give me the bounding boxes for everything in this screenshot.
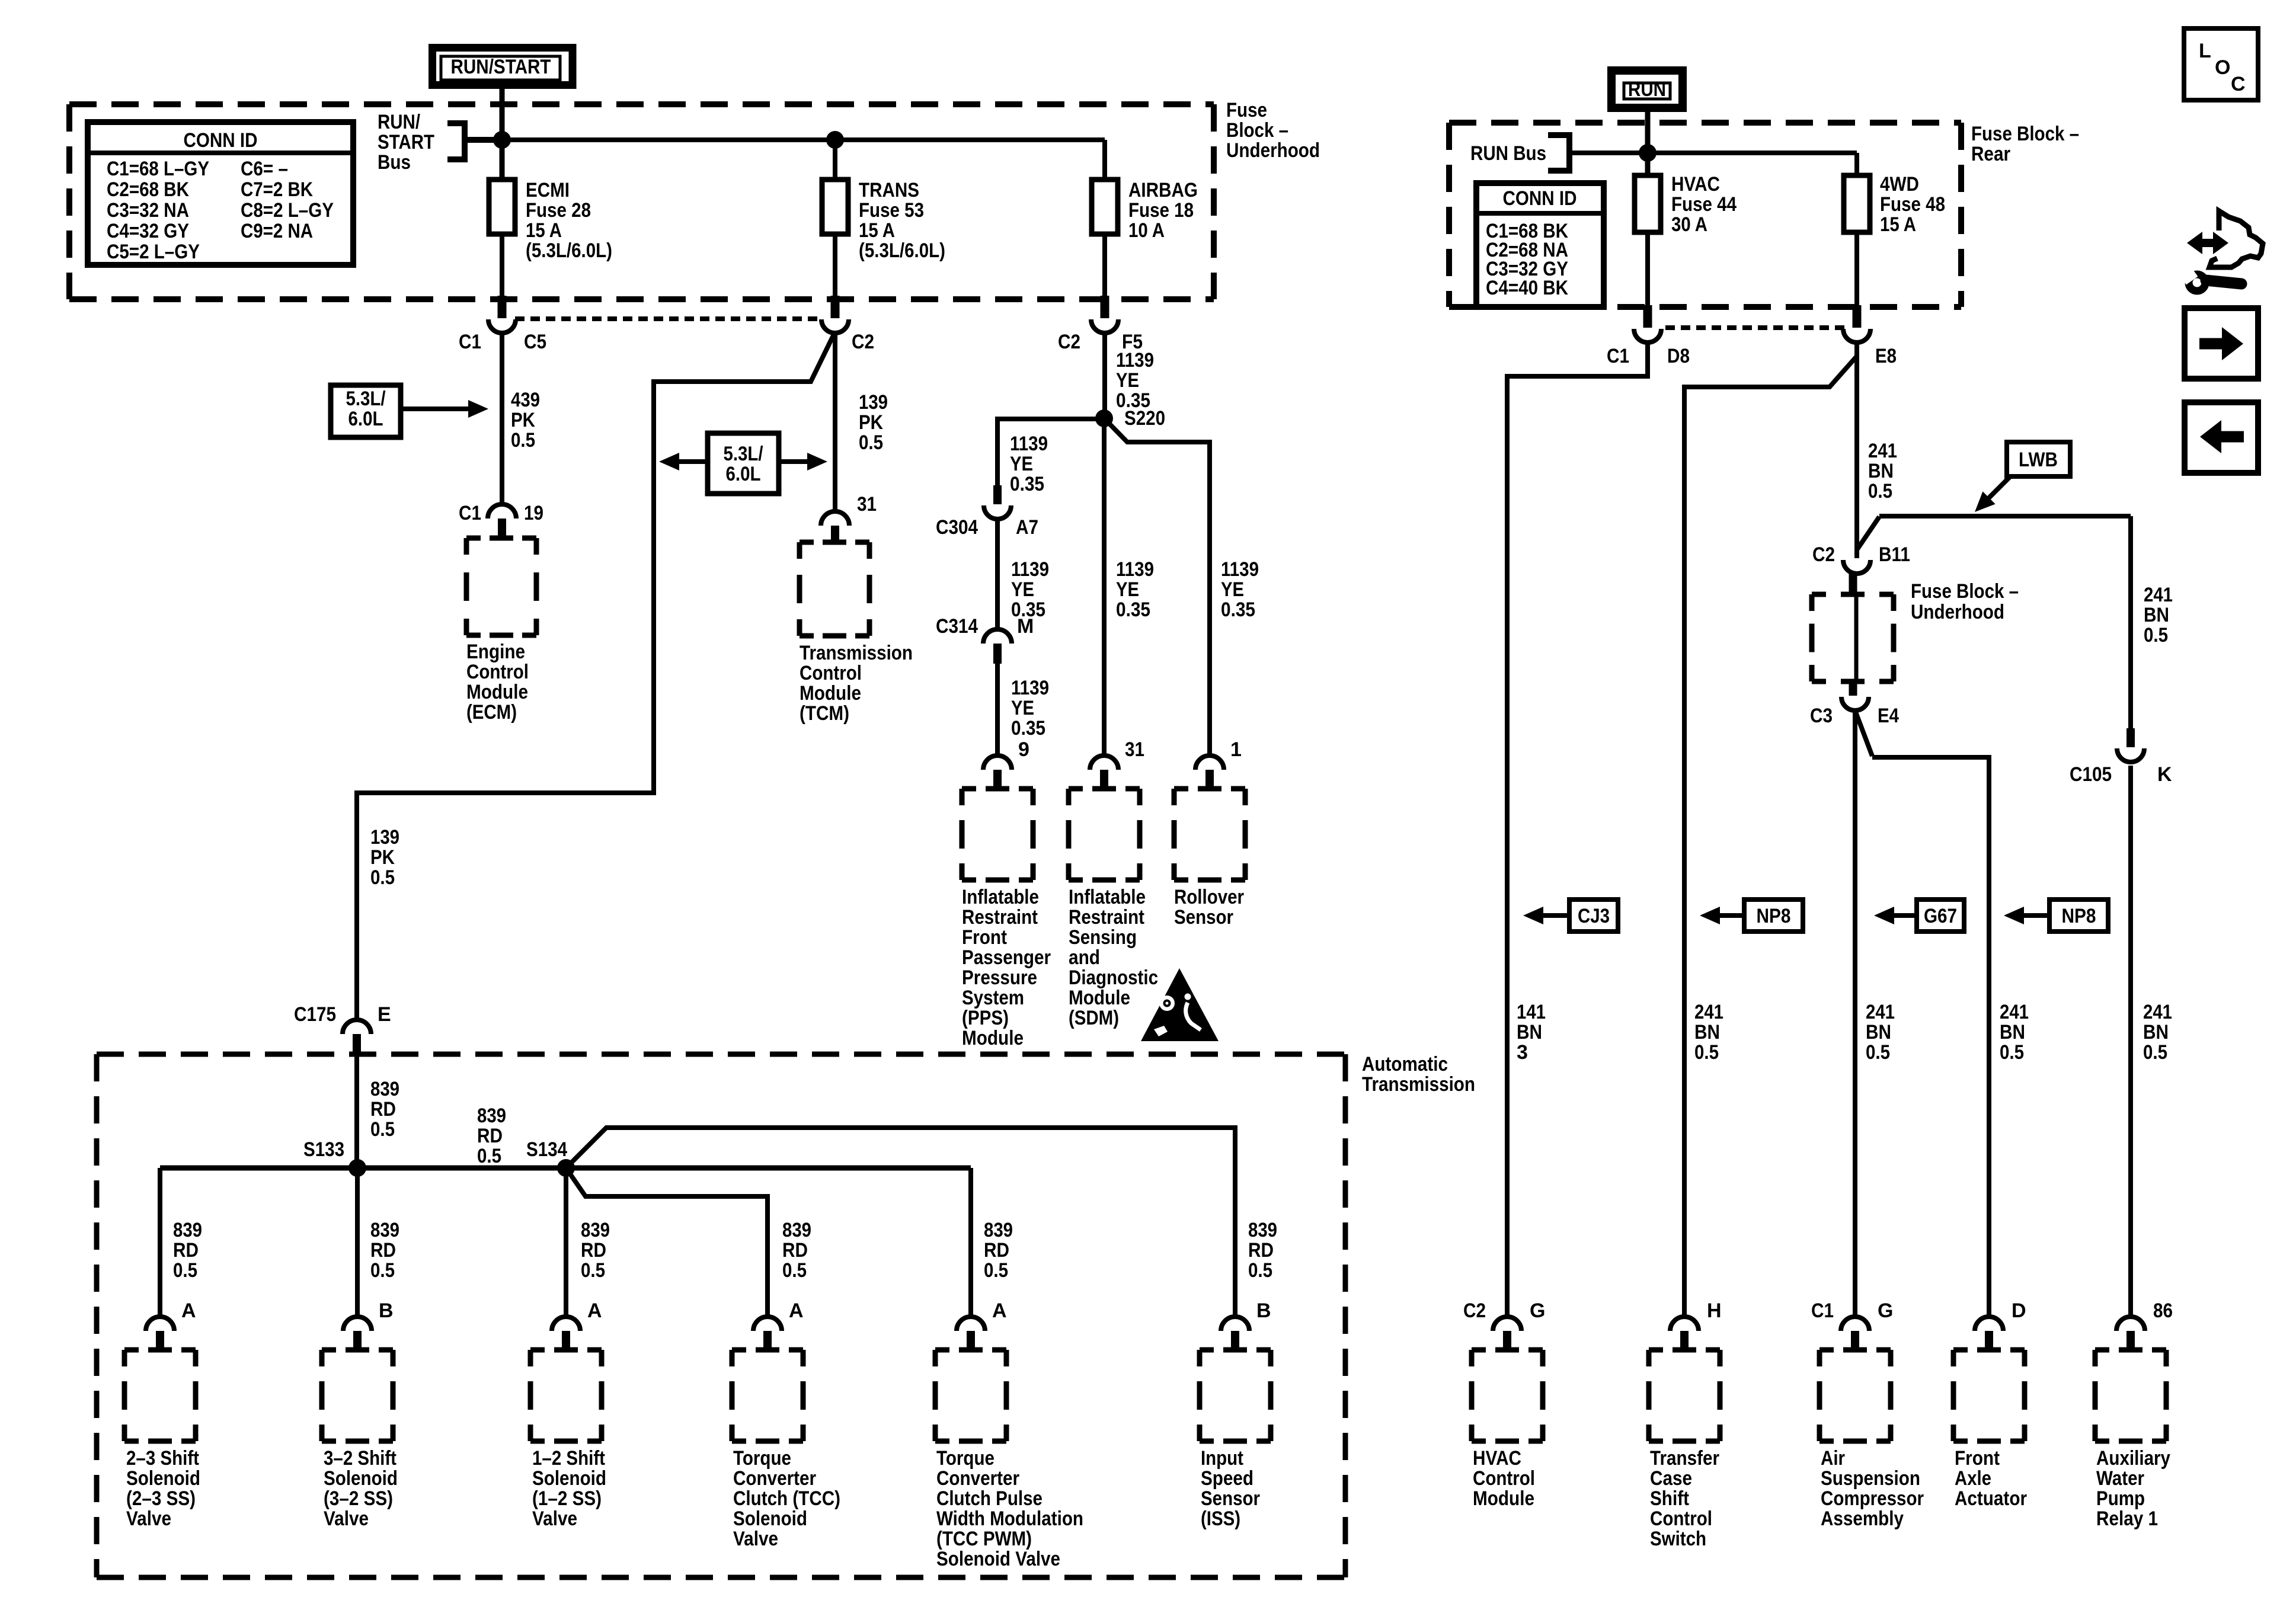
- svg-text:839: 839: [173, 1219, 202, 1241]
- svg-text:(2–3 SS): (2–3 SS): [126, 1487, 196, 1510]
- svg-text:0.5: 0.5: [1694, 1041, 1719, 1064]
- svg-text:0.5: 0.5: [511, 429, 535, 452]
- svg-text:4WD: 4WD: [1880, 173, 1919, 196]
- svg-text:15 A: 15 A: [526, 219, 562, 242]
- svg-text:839: 839: [782, 1219, 811, 1241]
- svg-text:C2=68 BK: C2=68 BK: [107, 178, 189, 201]
- svg-text:Fuse: Fuse: [1226, 99, 1267, 121]
- svg-text:K: K: [2157, 763, 2172, 786]
- svg-text:30 A: 30 A: [1671, 213, 1707, 236]
- svg-text:G: G: [1530, 1299, 1545, 1322]
- svg-text:C304: C304: [936, 516, 978, 539]
- svg-text:0.5: 0.5: [1868, 480, 1892, 502]
- svg-text:0.5: 0.5: [173, 1259, 197, 1282]
- svg-text:1: 1: [1230, 738, 1242, 761]
- svg-text:O: O: [2215, 56, 2230, 79]
- svg-text:C3=32 NA: C3=32 NA: [107, 199, 189, 222]
- svg-text:AIRBAG: AIRBAG: [1128, 179, 1198, 201]
- svg-text:HVAC: HVAC: [1473, 1447, 1521, 1470]
- svg-text:Fuse 44: Fuse 44: [1671, 193, 1737, 216]
- svg-text:3–2 Shift: 3–2 Shift: [324, 1447, 396, 1470]
- svg-text:3: 3: [1517, 1041, 1528, 1064]
- svg-text:RD: RD: [581, 1239, 606, 1262]
- svg-text:0.35: 0.35: [1221, 598, 1255, 621]
- svg-text:C314: C314: [936, 615, 978, 638]
- svg-text:BN: BN: [2143, 1021, 2169, 1044]
- svg-text:839: 839: [1248, 1219, 1277, 1241]
- svg-text:PK: PK: [370, 846, 395, 869]
- svg-text:0.5: 0.5: [1248, 1259, 1272, 1282]
- svg-text:31: 31: [857, 493, 877, 516]
- svg-text:241: 241: [2144, 584, 2173, 606]
- svg-text:RD: RD: [173, 1239, 199, 1262]
- svg-text:Underhood: Underhood: [1911, 601, 2004, 623]
- svg-text:Converter: Converter: [733, 1467, 816, 1490]
- svg-text:M: M: [1017, 615, 1034, 638]
- svg-text:Input: Input: [1201, 1447, 1243, 1470]
- svg-text:YE: YE: [1010, 453, 1033, 475]
- svg-text:G67: G67: [1924, 905, 1957, 927]
- svg-text:Solenoid: Solenoid: [126, 1467, 200, 1490]
- svg-text:139: 139: [859, 391, 888, 414]
- svg-text:0.35: 0.35: [1011, 717, 1045, 740]
- svg-text:BN: BN: [2144, 604, 2169, 626]
- svg-text:Module: Module: [800, 682, 861, 705]
- svg-text:Module: Module: [1473, 1487, 1534, 1510]
- svg-text:0.5: 0.5: [477, 1145, 501, 1167]
- svg-text:Fuse 48: Fuse 48: [1880, 193, 1945, 216]
- svg-text:86: 86: [2153, 1299, 2173, 1322]
- svg-text:D8: D8: [1667, 345, 1690, 367]
- svg-text:0.5: 0.5: [370, 1118, 395, 1141]
- svg-text:Engine: Engine: [466, 641, 525, 663]
- svg-text:Inflatable: Inflatable: [1069, 886, 1146, 908]
- svg-text:10 A: 10 A: [1128, 219, 1165, 242]
- svg-text:Clutch Pulse: Clutch Pulse: [936, 1487, 1043, 1510]
- svg-text:241: 241: [2000, 1001, 2029, 1023]
- svg-text:E: E: [378, 1003, 391, 1026]
- svg-text:141: 141: [1517, 1001, 1546, 1023]
- svg-text:5.3L/: 5.3L/: [346, 388, 386, 410]
- svg-text:Rear: Rear: [1971, 143, 2010, 165]
- svg-text:Valve: Valve: [733, 1528, 778, 1550]
- svg-text:6.0L: 6.0L: [726, 463, 761, 485]
- svg-text:RD: RD: [984, 1239, 1009, 1262]
- svg-text:(1–2 SS): (1–2 SS): [532, 1487, 602, 1510]
- svg-text:RUN/START: RUN/START: [451, 56, 551, 78]
- svg-text:RUN/: RUN/: [378, 111, 420, 133]
- svg-text:1139: 1139: [1010, 433, 1048, 455]
- svg-text:H: H: [1707, 1299, 1722, 1322]
- svg-text:A: A: [587, 1299, 602, 1322]
- svg-text:D: D: [2012, 1299, 2026, 1322]
- svg-text:C2: C2: [1058, 331, 1080, 353]
- svg-text:Sensor: Sensor: [1174, 906, 1233, 929]
- svg-text:C1: C1: [1811, 1299, 1834, 1322]
- svg-text:(ISS): (ISS): [1201, 1507, 1240, 1530]
- svg-text:Transfer: Transfer: [1650, 1447, 1719, 1470]
- svg-text:Pressure: Pressure: [962, 966, 1037, 989]
- svg-text:Valve: Valve: [324, 1507, 369, 1530]
- svg-text:Switch: Switch: [1650, 1528, 1706, 1550]
- svg-text:C1: C1: [1607, 345, 1629, 367]
- svg-text:PK: PK: [859, 411, 883, 434]
- svg-text:(5.3L/6.0L): (5.3L/6.0L): [859, 239, 945, 262]
- svg-text:Restraint: Restraint: [962, 906, 1038, 929]
- svg-text:0.5: 0.5: [1866, 1041, 1890, 1064]
- svg-text:Underhood: Underhood: [1226, 139, 1320, 162]
- svg-text:0.5: 0.5: [2144, 624, 2168, 646]
- svg-text:Fuse Block –: Fuse Block –: [1911, 580, 2019, 603]
- svg-text:Transmission: Transmission: [800, 642, 913, 664]
- svg-text:Axle: Axle: [1955, 1467, 1991, 1490]
- svg-text:Sensing: Sensing: [1069, 926, 1137, 949]
- svg-text:15 A: 15 A: [859, 219, 895, 242]
- svg-text:0.5: 0.5: [782, 1259, 807, 1282]
- svg-text:Control: Control: [1650, 1507, 1712, 1530]
- svg-text:LWB: LWB: [2019, 449, 2058, 471]
- svg-text:YE: YE: [1221, 578, 1244, 601]
- svg-text:E8: E8: [1875, 345, 1897, 367]
- svg-text:C: C: [2231, 73, 2246, 95]
- svg-text:19: 19: [524, 502, 543, 524]
- svg-text:Converter: Converter: [936, 1467, 1019, 1490]
- svg-text:RD: RD: [477, 1125, 503, 1147]
- svg-text:PK: PK: [511, 409, 535, 431]
- svg-text:A: A: [181, 1299, 196, 1322]
- svg-text:ECMI: ECMI: [526, 179, 570, 201]
- svg-text:Torque: Torque: [936, 1447, 994, 1470]
- svg-text:C2: C2: [852, 331, 874, 353]
- svg-text:C1=68 L–GY: C1=68 L–GY: [107, 158, 209, 180]
- svg-text:CONN ID: CONN ID: [184, 129, 258, 152]
- svg-text:Bus: Bus: [378, 151, 411, 174]
- svg-text:Compressor: Compressor: [1821, 1487, 1924, 1510]
- svg-text:Inflatable: Inflatable: [962, 886, 1039, 908]
- svg-text:RD: RD: [1248, 1239, 1274, 1262]
- svg-text:Valve: Valve: [126, 1507, 171, 1530]
- svg-text:Clutch (TCC): Clutch (TCC): [733, 1487, 840, 1510]
- svg-text:START: START: [378, 131, 434, 153]
- svg-text:1139: 1139: [1116, 349, 1154, 372]
- svg-text:31: 31: [1125, 738, 1144, 761]
- svg-text:C2: C2: [1463, 1299, 1486, 1322]
- svg-text:Auxiliary: Auxiliary: [2096, 1447, 2170, 1470]
- svg-text:0.35: 0.35: [1116, 598, 1150, 621]
- svg-text:1139: 1139: [1116, 558, 1154, 581]
- svg-text:Suspension: Suspension: [1821, 1467, 1920, 1490]
- svg-text:241: 241: [1866, 1001, 1895, 1023]
- svg-text:Solenoid: Solenoid: [733, 1507, 807, 1530]
- svg-text:839: 839: [477, 1105, 506, 1127]
- svg-text:Fuse Block –: Fuse Block –: [1971, 123, 2079, 145]
- svg-text:1139: 1139: [1011, 677, 1049, 699]
- svg-text:RD: RD: [370, 1098, 396, 1121]
- svg-text:C1: C1: [459, 502, 481, 524]
- svg-text:0.5: 0.5: [2000, 1041, 2024, 1064]
- svg-text:Solenoid Valve: Solenoid Valve: [936, 1548, 1060, 1570]
- svg-text:B: B: [1256, 1299, 1271, 1322]
- svg-text:YE: YE: [1116, 369, 1139, 392]
- svg-text:5.3L/: 5.3L/: [724, 443, 763, 465]
- svg-text:(TCC PWM): (TCC PWM): [936, 1528, 1032, 1550]
- svg-text:Speed: Speed: [1201, 1467, 1253, 1490]
- svg-text:B: B: [379, 1299, 394, 1322]
- svg-text:C6= –: C6= –: [241, 158, 288, 180]
- svg-text:BN: BN: [1694, 1021, 1720, 1044]
- svg-text:Control: Control: [466, 661, 529, 683]
- svg-text:YE: YE: [1011, 697, 1034, 719]
- svg-text:Front: Front: [1955, 1447, 2000, 1470]
- svg-text:839: 839: [370, 1078, 399, 1100]
- svg-text:Shift: Shift: [1650, 1487, 1689, 1510]
- svg-text:Front: Front: [962, 926, 1007, 949]
- svg-text:Transmission: Transmission: [1362, 1073, 1475, 1096]
- svg-text:9: 9: [1018, 738, 1029, 761]
- svg-text:439: 439: [511, 389, 540, 411]
- svg-text:YE: YE: [1011, 578, 1034, 601]
- svg-text:0.5: 0.5: [370, 1259, 395, 1282]
- svg-text:A: A: [992, 1299, 1007, 1322]
- svg-text:L: L: [2199, 40, 2211, 62]
- svg-text:1139: 1139: [1011, 558, 1049, 581]
- svg-text:BN: BN: [2000, 1021, 2025, 1044]
- svg-text:Pump: Pump: [2096, 1487, 2145, 1510]
- svg-text:A: A: [789, 1299, 804, 1322]
- svg-text:15 A: 15 A: [1880, 213, 1916, 236]
- svg-text:0.5: 0.5: [581, 1259, 605, 1282]
- svg-text:CJ3: CJ3: [1578, 905, 1610, 927]
- svg-text:(SDM): (SDM): [1069, 1007, 1119, 1029]
- svg-text:BN: BN: [1517, 1021, 1542, 1044]
- svg-text:2–3 Shift: 2–3 Shift: [126, 1447, 199, 1470]
- svg-text:BN: BN: [1868, 460, 1894, 482]
- svg-text:Fuse 53: Fuse 53: [859, 199, 924, 222]
- svg-text:0.5: 0.5: [370, 866, 395, 889]
- svg-text:C105: C105: [2070, 763, 2112, 786]
- svg-text:Control: Control: [800, 662, 862, 684]
- svg-text:Case: Case: [1650, 1467, 1692, 1490]
- svg-text:C4=40 BK: C4=40 BK: [1486, 277, 1568, 299]
- svg-text:C5=2 L–GY: C5=2 L–GY: [107, 241, 200, 263]
- svg-text:NP8: NP8: [2062, 905, 2096, 927]
- svg-text:S134: S134: [526, 1138, 567, 1161]
- svg-text:139: 139: [370, 826, 399, 849]
- svg-text:Air: Air: [1821, 1447, 1845, 1470]
- svg-text:Module: Module: [1069, 987, 1130, 1009]
- svg-text:(ECM): (ECM): [466, 701, 517, 724]
- svg-text:839: 839: [984, 1219, 1013, 1241]
- svg-text:BN: BN: [1866, 1021, 1891, 1044]
- svg-text:E4: E4: [1878, 705, 1899, 727]
- svg-text:Relay 1: Relay 1: [2096, 1507, 2158, 1530]
- svg-text:C9=2 NA: C9=2 NA: [241, 220, 313, 242]
- svg-text:Sensor: Sensor: [1201, 1487, 1260, 1510]
- svg-text:RUN: RUN: [1628, 78, 1666, 101]
- svg-text:C4=32 GY: C4=32 GY: [107, 220, 189, 242]
- svg-text:839: 839: [370, 1219, 399, 1241]
- svg-text:C1: C1: [459, 331, 481, 353]
- svg-text:241: 241: [1694, 1001, 1723, 1023]
- svg-text:(TCM): (TCM): [800, 702, 849, 725]
- svg-text:Assembly: Assembly: [1821, 1507, 1904, 1530]
- svg-text:0.5: 0.5: [984, 1259, 1008, 1282]
- svg-text:HVAC: HVAC: [1671, 173, 1720, 196]
- svg-text:RUN Bus: RUN Bus: [1470, 142, 1546, 165]
- svg-text:Width Modulation: Width Modulation: [936, 1507, 1083, 1530]
- svg-text:Solenoid: Solenoid: [324, 1467, 398, 1490]
- svg-text:Automatic: Automatic: [1362, 1053, 1448, 1076]
- svg-text:0.5: 0.5: [2143, 1041, 2167, 1064]
- svg-text:(5.3L/6.0L): (5.3L/6.0L): [526, 239, 612, 262]
- svg-text:Water: Water: [2096, 1467, 2144, 1490]
- svg-text:Module: Module: [466, 681, 528, 703]
- svg-text:B11: B11: [1879, 543, 1910, 566]
- svg-text:Rollover: Rollover: [1174, 886, 1244, 908]
- svg-text:(PPS): (PPS): [962, 1007, 1009, 1029]
- svg-text:Torque: Torque: [733, 1447, 791, 1470]
- svg-text:G: G: [1878, 1299, 1893, 1322]
- svg-text:System: System: [962, 987, 1024, 1009]
- svg-text:1–2 Shift: 1–2 Shift: [532, 1447, 605, 1470]
- svg-text:A7: A7: [1016, 516, 1038, 539]
- svg-text:CONN ID: CONN ID: [1503, 187, 1577, 210]
- svg-text:and: and: [1069, 946, 1100, 969]
- svg-text:1139: 1139: [1221, 558, 1259, 581]
- svg-text:Block –: Block –: [1226, 119, 1288, 142]
- svg-text:Valve: Valve: [532, 1507, 577, 1530]
- svg-text:Fuse 28: Fuse 28: [526, 199, 591, 222]
- svg-text:839: 839: [581, 1219, 610, 1241]
- svg-text:Diagnostic: Diagnostic: [1069, 966, 1158, 989]
- svg-text:(3–2 SS): (3–2 SS): [324, 1487, 393, 1510]
- svg-text:S220: S220: [1124, 407, 1165, 430]
- svg-text:NP8: NP8: [1757, 905, 1791, 927]
- svg-text:Module: Module: [962, 1027, 1024, 1049]
- svg-text:C3: C3: [1810, 705, 1833, 727]
- svg-text:C2: C2: [1812, 543, 1835, 566]
- svg-text:Solenoid: Solenoid: [532, 1467, 606, 1490]
- svg-text:C175: C175: [294, 1003, 336, 1026]
- svg-text:Fuse 18: Fuse 18: [1128, 199, 1194, 222]
- svg-text:RD: RD: [782, 1239, 808, 1262]
- svg-text:Restraint: Restraint: [1069, 906, 1144, 929]
- svg-text:C7=2 BK: C7=2 BK: [241, 178, 313, 201]
- svg-text:TRANS: TRANS: [859, 179, 919, 201]
- svg-text:0.5: 0.5: [859, 431, 883, 454]
- svg-text:RD: RD: [370, 1239, 396, 1262]
- svg-text:241: 241: [2143, 1001, 2172, 1023]
- svg-text:Actuator: Actuator: [1955, 1487, 2027, 1510]
- svg-text:C8=2 L–GY: C8=2 L–GY: [241, 199, 334, 222]
- svg-text:0.35: 0.35: [1010, 473, 1044, 495]
- svg-text:241: 241: [1868, 440, 1897, 462]
- svg-text:Control: Control: [1473, 1467, 1535, 1490]
- svg-text:YE: YE: [1116, 578, 1139, 601]
- svg-text:C5: C5: [524, 331, 546, 353]
- svg-text:S133: S133: [303, 1138, 344, 1161]
- svg-text:6.0L: 6.0L: [348, 408, 383, 430]
- svg-text:Passenger: Passenger: [962, 946, 1051, 969]
